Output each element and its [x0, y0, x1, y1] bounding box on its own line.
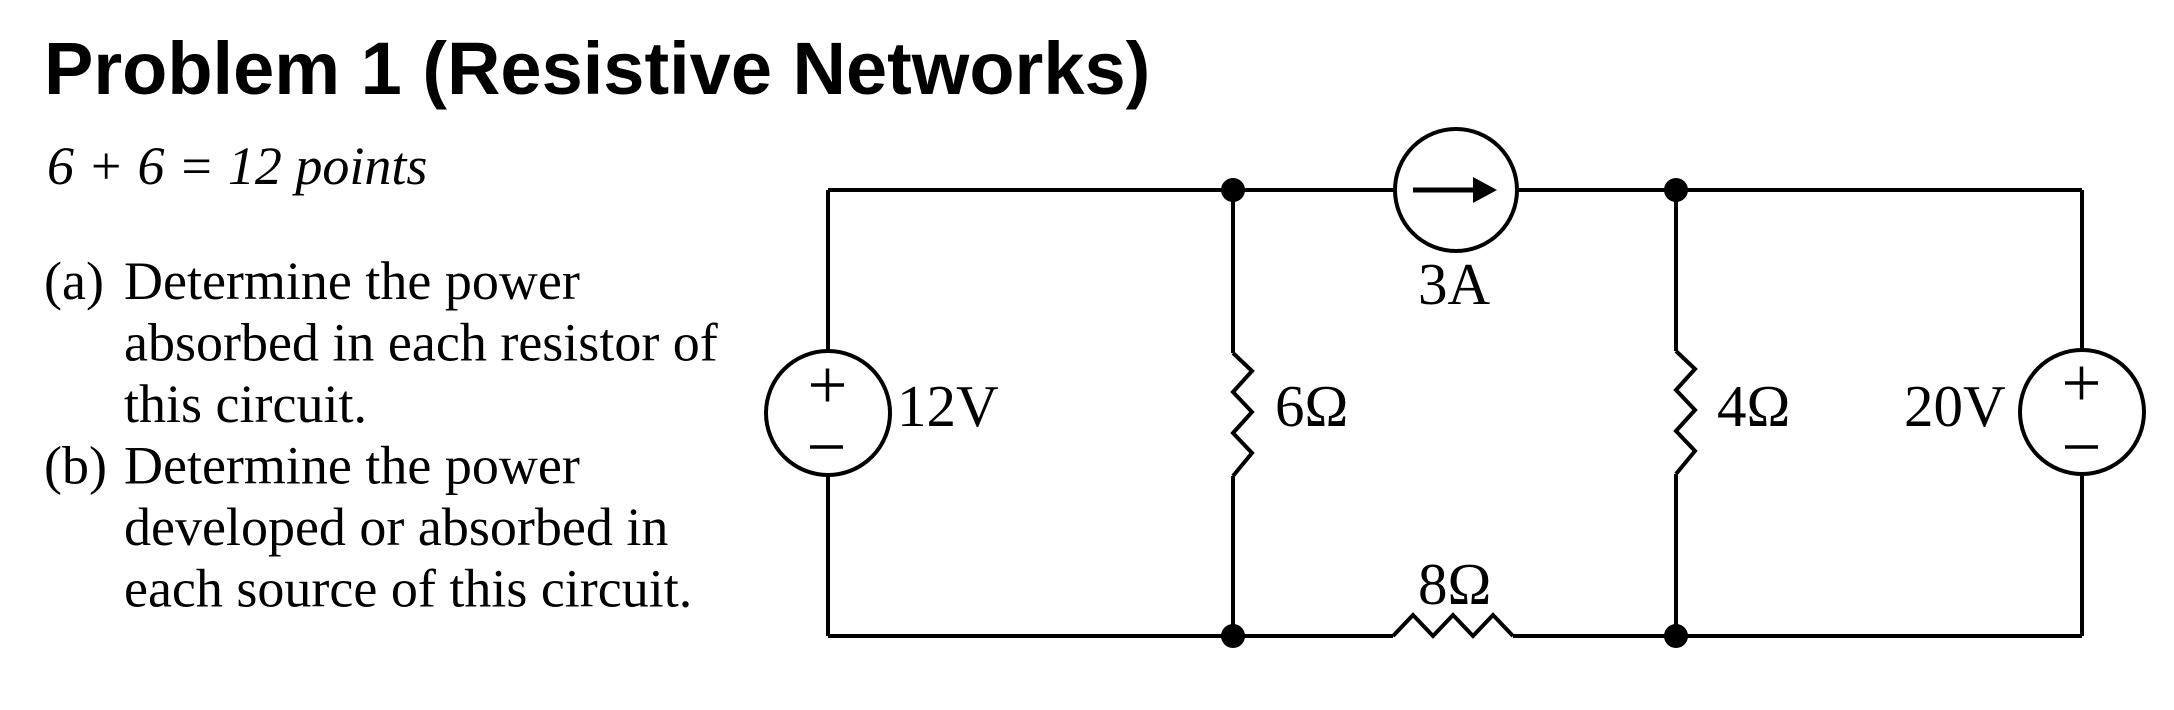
node A junction dot (top left) — [1221, 178, 1245, 202]
wire: 6-ohm branch upper — [1231, 190, 1235, 353]
wire: 4-ohm branch upper — [1674, 190, 1678, 351]
voltage source V2 20V circle — [2020, 350, 2144, 474]
resistor 8-ohm zigzag — [1393, 615, 1513, 636]
wire: bottom right segment (resistor R3 to BR) — [1513, 634, 2082, 638]
voltage source V1 minus sign — [810, 445, 843, 449]
svg-text:12V: 12V — [897, 373, 999, 439]
current source I1 3A circle — [1395, 129, 1517, 251]
svg-text:(b): (b) — [44, 436, 107, 496]
wire: 4-ohm branch lower — [1674, 474, 1678, 636]
voltage source V2 minus sign — [2065, 445, 2098, 449]
wire: 6-ohm branch lower — [1231, 476, 1235, 636]
svg-text:6Ω: 6Ω — [1275, 373, 1348, 439]
svg-text:6 + 6 = 12 points: 6 + 6 = 12 points — [47, 136, 427, 196]
svg-text:20V: 20V — [1904, 373, 2006, 439]
svg-text:absorbed in each resistor of: absorbed in each resistor of — [124, 313, 718, 373]
svg-text:Determine the power: Determine the power — [124, 251, 580, 311]
voltage source V1 12V circle — [766, 351, 890, 475]
svg-text:3A: 3A — [1418, 251, 1491, 317]
wire: bottom left segment (BL to resistor R3) — [828, 634, 1393, 638]
svg-text:Problem 1 (Resistive Networks): Problem 1 (Resistive Networks) — [44, 27, 1150, 110]
svg-text:4Ω: 4Ω — [1717, 373, 1790, 439]
wire: top horizontal (TL to TR through nodes A,B) — [828, 188, 2082, 192]
wire: left vertical (node TL to node BL) — [826, 190, 830, 636]
resistor 6-ohm zigzag — [1233, 353, 1252, 476]
resistor 4-ohm zigzag — [1676, 351, 1695, 474]
svg-text:each source of this circuit.: each source of this circuit. — [124, 559, 692, 619]
svg-text:8Ω: 8Ω — [1418, 551, 1491, 617]
svg-text:this circuit.: this circuit. — [124, 374, 367, 434]
node B junction dot (top right) — [1664, 178, 1688, 202]
voltage source V2 plus sign — [2065, 367, 2098, 400]
wire: right vertical (TR to BR) — [2080, 190, 2084, 636]
current source I1 arrow — [1413, 177, 1497, 203]
node D junction dot (bottom right) — [1664, 624, 1688, 648]
node C junction dot (bottom left) — [1221, 624, 1245, 648]
voltage source V1 plus sign — [811, 369, 844, 402]
svg-text:developed or absorbed in: developed or absorbed in — [124, 497, 668, 557]
svg-text:Determine the power: Determine the power — [124, 436, 580, 496]
svg-text:(a): (a) — [44, 251, 104, 311]
